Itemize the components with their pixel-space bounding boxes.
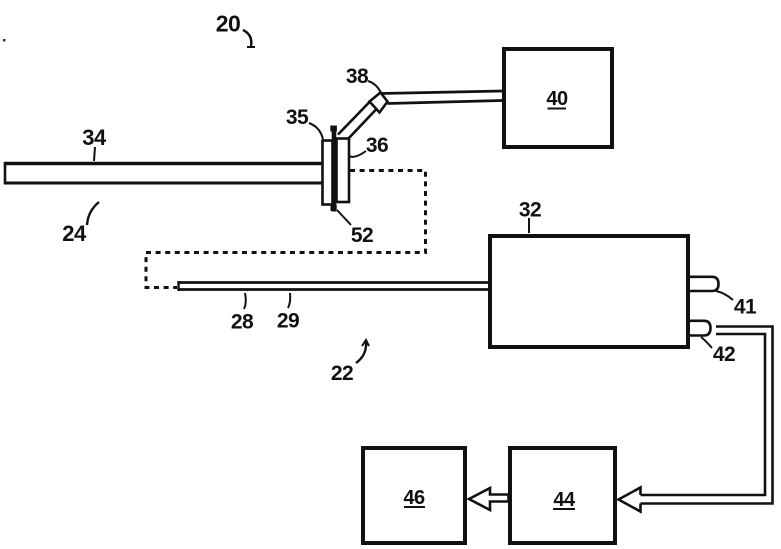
label 42 <box>701 337 735 366</box>
tube 28/29 (second elongate member) <box>178 281 490 291</box>
svg-text:41: 41 <box>734 296 757 319</box>
label 24 <box>62 202 99 246</box>
stray scan dot <box>3 39 6 42</box>
svg-text:28: 28 <box>231 311 254 334</box>
svg-text:29: 29 <box>277 310 299 333</box>
label 52 <box>337 210 373 247</box>
arrow into box 44 (hollow arrowhead) <box>619 488 641 512</box>
label 28 <box>231 293 254 334</box>
box 44 <box>510 448 615 543</box>
label 34 <box>82 125 107 161</box>
label 36 <box>349 134 388 157</box>
dashed alignment wire (element 36 to tube 28) <box>146 171 426 288</box>
port 41 (stub) <box>690 277 719 291</box>
svg-text:52: 52 <box>351 224 373 247</box>
label 32 <box>519 199 541 234</box>
svg-text:46: 46 <box>403 487 425 509</box>
wire from port 42 to box 44 (hollow tube) <box>641 327 773 504</box>
label 22 <box>331 340 369 385</box>
tube 34 (elongate member) <box>4 162 322 185</box>
arrow from box 44 to box 46 (hollow arrow) <box>469 488 509 510</box>
label 20 <box>216 11 255 48</box>
svg-text:35: 35 <box>286 106 309 129</box>
optical strip 52 (dark vertical strip) <box>332 126 337 212</box>
svg-text:22: 22 <box>331 362 353 385</box>
port 42 (stub) <box>690 321 711 336</box>
box 46 <box>363 448 465 543</box>
svg-text:34: 34 <box>82 125 107 150</box>
svg-text:36: 36 <box>366 134 388 157</box>
svg-text:44: 44 <box>553 489 576 511</box>
diagonal tube wire (from elbow 38 to holder 36) <box>338 102 377 140</box>
holder block 36 (right rectangle) <box>337 139 350 203</box>
label 38 <box>346 65 381 93</box>
box 32 <box>490 236 688 347</box>
horizontal tube wire (elbow 38 to box 40) <box>381 91 502 104</box>
label 29 <box>277 293 299 333</box>
svg-text:24: 24 <box>62 221 87 246</box>
holder plate 35 (left rectangle) <box>323 141 333 205</box>
label 41 <box>716 291 757 319</box>
svg-text:38: 38 <box>346 65 369 88</box>
box 40 <box>504 49 612 147</box>
label 35 <box>286 106 323 139</box>
svg-text:20: 20 <box>216 11 241 37</box>
elbow connector 38 (diamond) <box>370 93 388 113</box>
svg-text:42: 42 <box>713 343 735 366</box>
svg-text:40: 40 <box>546 88 568 110</box>
